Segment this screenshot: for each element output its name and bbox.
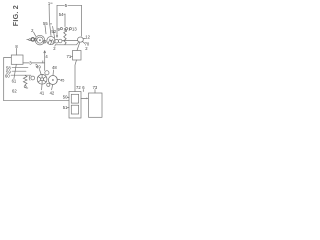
- wire: arrow controller to driver: [81, 97, 88, 99]
- wire: ellipse down to sensor box: [77, 42, 80, 50]
- motor box M: [11, 55, 23, 64]
- roller guide small left: [31, 76, 35, 80]
- wire: vertical from label 54 down to cassette: [64, 14, 66, 27]
- label 12 leader: [83, 38, 85, 40]
- wire: long bus to controller: [4, 100, 69, 102]
- svg-text:1: 1: [64, 27, 66, 31]
- svg-text:42: 42: [50, 91, 55, 96]
- node: small guide rollers top: [60, 28, 62, 30]
- svg-text:72: 72: [76, 85, 81, 90]
- wire: lower guide with downturn: [56, 42, 79, 44]
- roller big capstan: [35, 35, 45, 45]
- lower roller right: [48, 76, 57, 85]
- controller box U2 outer: [69, 92, 81, 119]
- svg-text:55: 55: [43, 21, 48, 26]
- lower roller small bottom: [47, 83, 50, 86]
- svg-text:48: 48: [52, 65, 57, 70]
- controller inner box A: [71, 94, 78, 103]
- svg-text:60: 60: [5, 73, 10, 78]
- wire: motor output right: [23, 62, 45, 64]
- sensor box U1: [73, 51, 82, 61]
- label 70 leader: [83, 42, 85, 44]
- wire: top film line with inline label 5: [57, 5, 82, 37]
- svg-text:49: 49: [36, 65, 41, 70]
- svg-text:41: 41: [40, 91, 45, 96]
- svg-text:FIG. 2: FIG. 2: [11, 5, 20, 26]
- svg-text:62: 62: [12, 88, 17, 93]
- wire: motor left side down: [4, 58, 12, 101]
- lower roller left with spokes: [37, 74, 47, 84]
- roller small: [34, 38, 37, 41]
- roller small between: [43, 40, 46, 43]
- spring S1: [23, 76, 27, 86]
- wire: film loop squiggle: [64, 29, 67, 44]
- svg-text:73: 73: [93, 85, 98, 90]
- roller pinch pair right: [55, 39, 59, 43]
- svg-text:54: 54: [59, 12, 64, 17]
- svg-text:50: 50: [63, 95, 68, 100]
- wire: right vertical from top corner down: [81, 6, 83, 37]
- svg-text:13: 13: [72, 26, 77, 31]
- lower roller small top: [45, 71, 49, 75]
- wire: long vertical to controller: [75, 60, 77, 92]
- controller inner box B: [71, 105, 78, 114]
- node: exposure unit ellipse: [78, 37, 84, 42]
- wire: film path to right: [62, 40, 78, 42]
- roller ring small: [31, 38, 34, 41]
- svg-text:1: 1: [68, 27, 70, 31]
- svg-text:12: 12: [85, 35, 90, 40]
- roller gear hatched: [47, 37, 55, 45]
- roller tiny far-left: [27, 39, 29, 41]
- svg-text:61: 61: [12, 78, 17, 83]
- wire: vertical drive shaft down to lower rollers: [44, 51, 46, 71]
- driver box U3: [89, 93, 103, 117]
- svg-text:52: 52: [51, 29, 56, 34]
- svg-text:45: 45: [60, 78, 64, 82]
- svg-text:5: 5: [65, 3, 68, 8]
